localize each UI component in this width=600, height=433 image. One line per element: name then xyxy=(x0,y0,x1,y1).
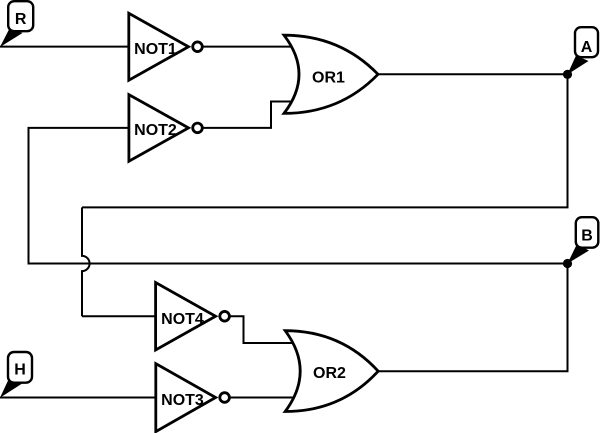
wire NOT3 output to OR2 bottom input xyxy=(228,397,294,399)
svg-text:OR2: OR2 xyxy=(313,365,346,382)
wire to NOT4 input xyxy=(82,315,158,317)
inverter NOT2 xyxy=(129,95,202,162)
svg-text:B: B xyxy=(581,228,593,245)
inverter NOT3 xyxy=(156,364,230,432)
junction dot node A xyxy=(563,70,572,79)
svg-text:NOT3: NOT3 xyxy=(161,392,204,409)
svg-text:NOT1: NOT1 xyxy=(134,41,177,58)
wire node A down right side xyxy=(82,74,568,207)
wire NOT2 output step to OR1 bottom input xyxy=(202,102,294,128)
svg-text:OR1: OR1 xyxy=(312,69,345,86)
wire vertical with hop over net B xyxy=(82,207,90,316)
flag label A xyxy=(567,27,598,74)
flag label R xyxy=(0,1,33,47)
flag label B xyxy=(567,217,598,263)
svg-text:NOT4: NOT4 xyxy=(161,311,204,328)
inverter NOT1 xyxy=(129,13,203,80)
wire H input to NOT3 xyxy=(0,397,158,399)
or-gate OR1 xyxy=(284,35,378,113)
inverter NOT4 xyxy=(156,283,230,351)
wire NOT1 output to OR1 top input xyxy=(202,46,294,48)
wire R input to NOT1 xyxy=(0,46,131,48)
svg-text:A: A xyxy=(581,39,593,56)
wire NOT4 output step to OR2 top input xyxy=(228,316,295,343)
wire OR2 output to node B xyxy=(377,264,568,372)
junction dot node B xyxy=(563,259,572,268)
wire OR1 output to node A xyxy=(377,73,568,75)
svg-text:H: H xyxy=(14,362,26,379)
wire node B back to left xyxy=(29,128,568,264)
flag label H xyxy=(0,352,32,398)
svg-text:NOT2: NOT2 xyxy=(134,122,177,139)
svg-text:R: R xyxy=(15,11,27,28)
or-gate OR2 xyxy=(285,331,378,412)
